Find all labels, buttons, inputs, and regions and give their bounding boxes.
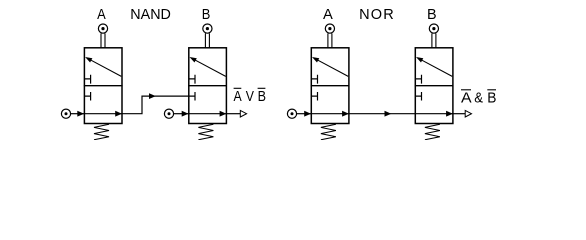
actuated-position flow arrow (diagonal) V4 (NOR B) bbox=[416, 57, 452, 76]
pilot stem (double line) V4 (NOR B) bbox=[432, 33, 436, 47]
blocked port T (bottom cell) V2 (NAND B) bbox=[189, 92, 195, 101]
supply wire S2 bbox=[174, 111, 189, 117]
valve body V1 (NAND A) bbox=[84, 48, 122, 124]
svg-text:B: B bbox=[202, 6, 211, 23]
wire V1 output to V2 blocked port bbox=[122, 93, 190, 114]
blocked port T (top cell) V4 (NOR B) bbox=[415, 75, 421, 84]
blocked port T (top cell) V3 (NOR A) bbox=[311, 75, 317, 84]
svg-text:NOR: NOR bbox=[359, 6, 395, 23]
return spring V2 (NAND B) bbox=[198, 124, 213, 140]
rest-position flow path V4 (NOR B) bbox=[415, 111, 453, 117]
rest-position flow path V1 (NAND A) bbox=[84, 111, 122, 117]
svg-text:B: B bbox=[487, 90, 496, 107]
NAND output port (open arrow) bbox=[240, 110, 246, 117]
supply wire S1 bbox=[71, 111, 85, 117]
rest-position flow path V2 (NAND B) bbox=[189, 111, 227, 117]
valve body V3 (NOR A) bbox=[311, 48, 349, 124]
svg-text:&: & bbox=[474, 90, 483, 107]
svg-text:A: A bbox=[234, 88, 242, 105]
valve cell divider V3 (NOR A) bbox=[311, 85, 350, 87]
blocked port T (top cell) V1 (NAND A) bbox=[84, 75, 90, 84]
actuated-position flow arrow (diagonal) V3 (NOR A) bbox=[312, 57, 348, 76]
NOR output port (open arrow) bbox=[465, 110, 471, 117]
pilot air source circle V2 (NAND B) bbox=[203, 24, 212, 33]
pilot air source circle V3 (NOR A) bbox=[325, 24, 334, 33]
NOR output expression A-bar & B-bar bbox=[461, 90, 497, 107]
actuated-position flow arrow (diagonal) V1 (NAND A) bbox=[85, 57, 121, 76]
valve body V4 (NOR B) bbox=[415, 48, 453, 124]
svg-text:A: A bbox=[97, 6, 106, 23]
pilot air source circle V4 (NOR B) bbox=[429, 24, 438, 33]
return spring V3 (NOR A) bbox=[321, 124, 336, 140]
wire V3 output to V4 input bbox=[349, 111, 415, 117]
rest-position flow path V3 (NOR A) bbox=[311, 111, 349, 117]
blocked port T (bottom cell) V4 (NOR B) bbox=[415, 92, 421, 101]
pilot stem (double line) V1 (NAND A) bbox=[101, 33, 105, 47]
pilot air source circle V1 (NAND A) bbox=[98, 24, 107, 33]
valve body V2 (NAND B) bbox=[189, 48, 227, 124]
svg-text:A: A bbox=[323, 6, 333, 23]
return spring V4 (NOR B) bbox=[425, 124, 440, 140]
blocked port T (bottom cell) V3 (NOR A) bbox=[311, 92, 317, 101]
blocked port T (top cell) V2 (NAND B) bbox=[189, 75, 195, 84]
svg-text:V: V bbox=[246, 88, 254, 105]
return spring V1 (NAND A) bbox=[94, 124, 109, 140]
pilot stem (double line) V2 (NAND B) bbox=[205, 33, 209, 47]
compressed air source S3 bbox=[287, 109, 296, 118]
valve cell divider V2 (NAND B) bbox=[188, 85, 227, 87]
valve cell divider V4 (NOR B) bbox=[415, 85, 454, 87]
svg-text:B: B bbox=[258, 88, 266, 105]
compressed air source S2 bbox=[164, 109, 173, 118]
svg-text:B: B bbox=[427, 6, 437, 23]
svg-text:NAND: NAND bbox=[130, 6, 171, 23]
actuated-position flow arrow (diagonal) V2 (NAND B) bbox=[190, 57, 226, 76]
NOR output wire bbox=[453, 113, 465, 115]
valve cell divider V1 (NAND A) bbox=[84, 85, 123, 87]
supply wire S3 bbox=[297, 111, 312, 117]
NAND output expression A-bar V B-bar bbox=[234, 88, 267, 105]
blocked port T (bottom cell) V1 (NAND A) bbox=[84, 92, 90, 101]
NAND output wire bbox=[226, 113, 240, 115]
pilot stem (double line) V3 (NOR A) bbox=[328, 33, 332, 47]
compressed air source S1 bbox=[61, 109, 70, 118]
svg-text:A: A bbox=[461, 90, 472, 107]
